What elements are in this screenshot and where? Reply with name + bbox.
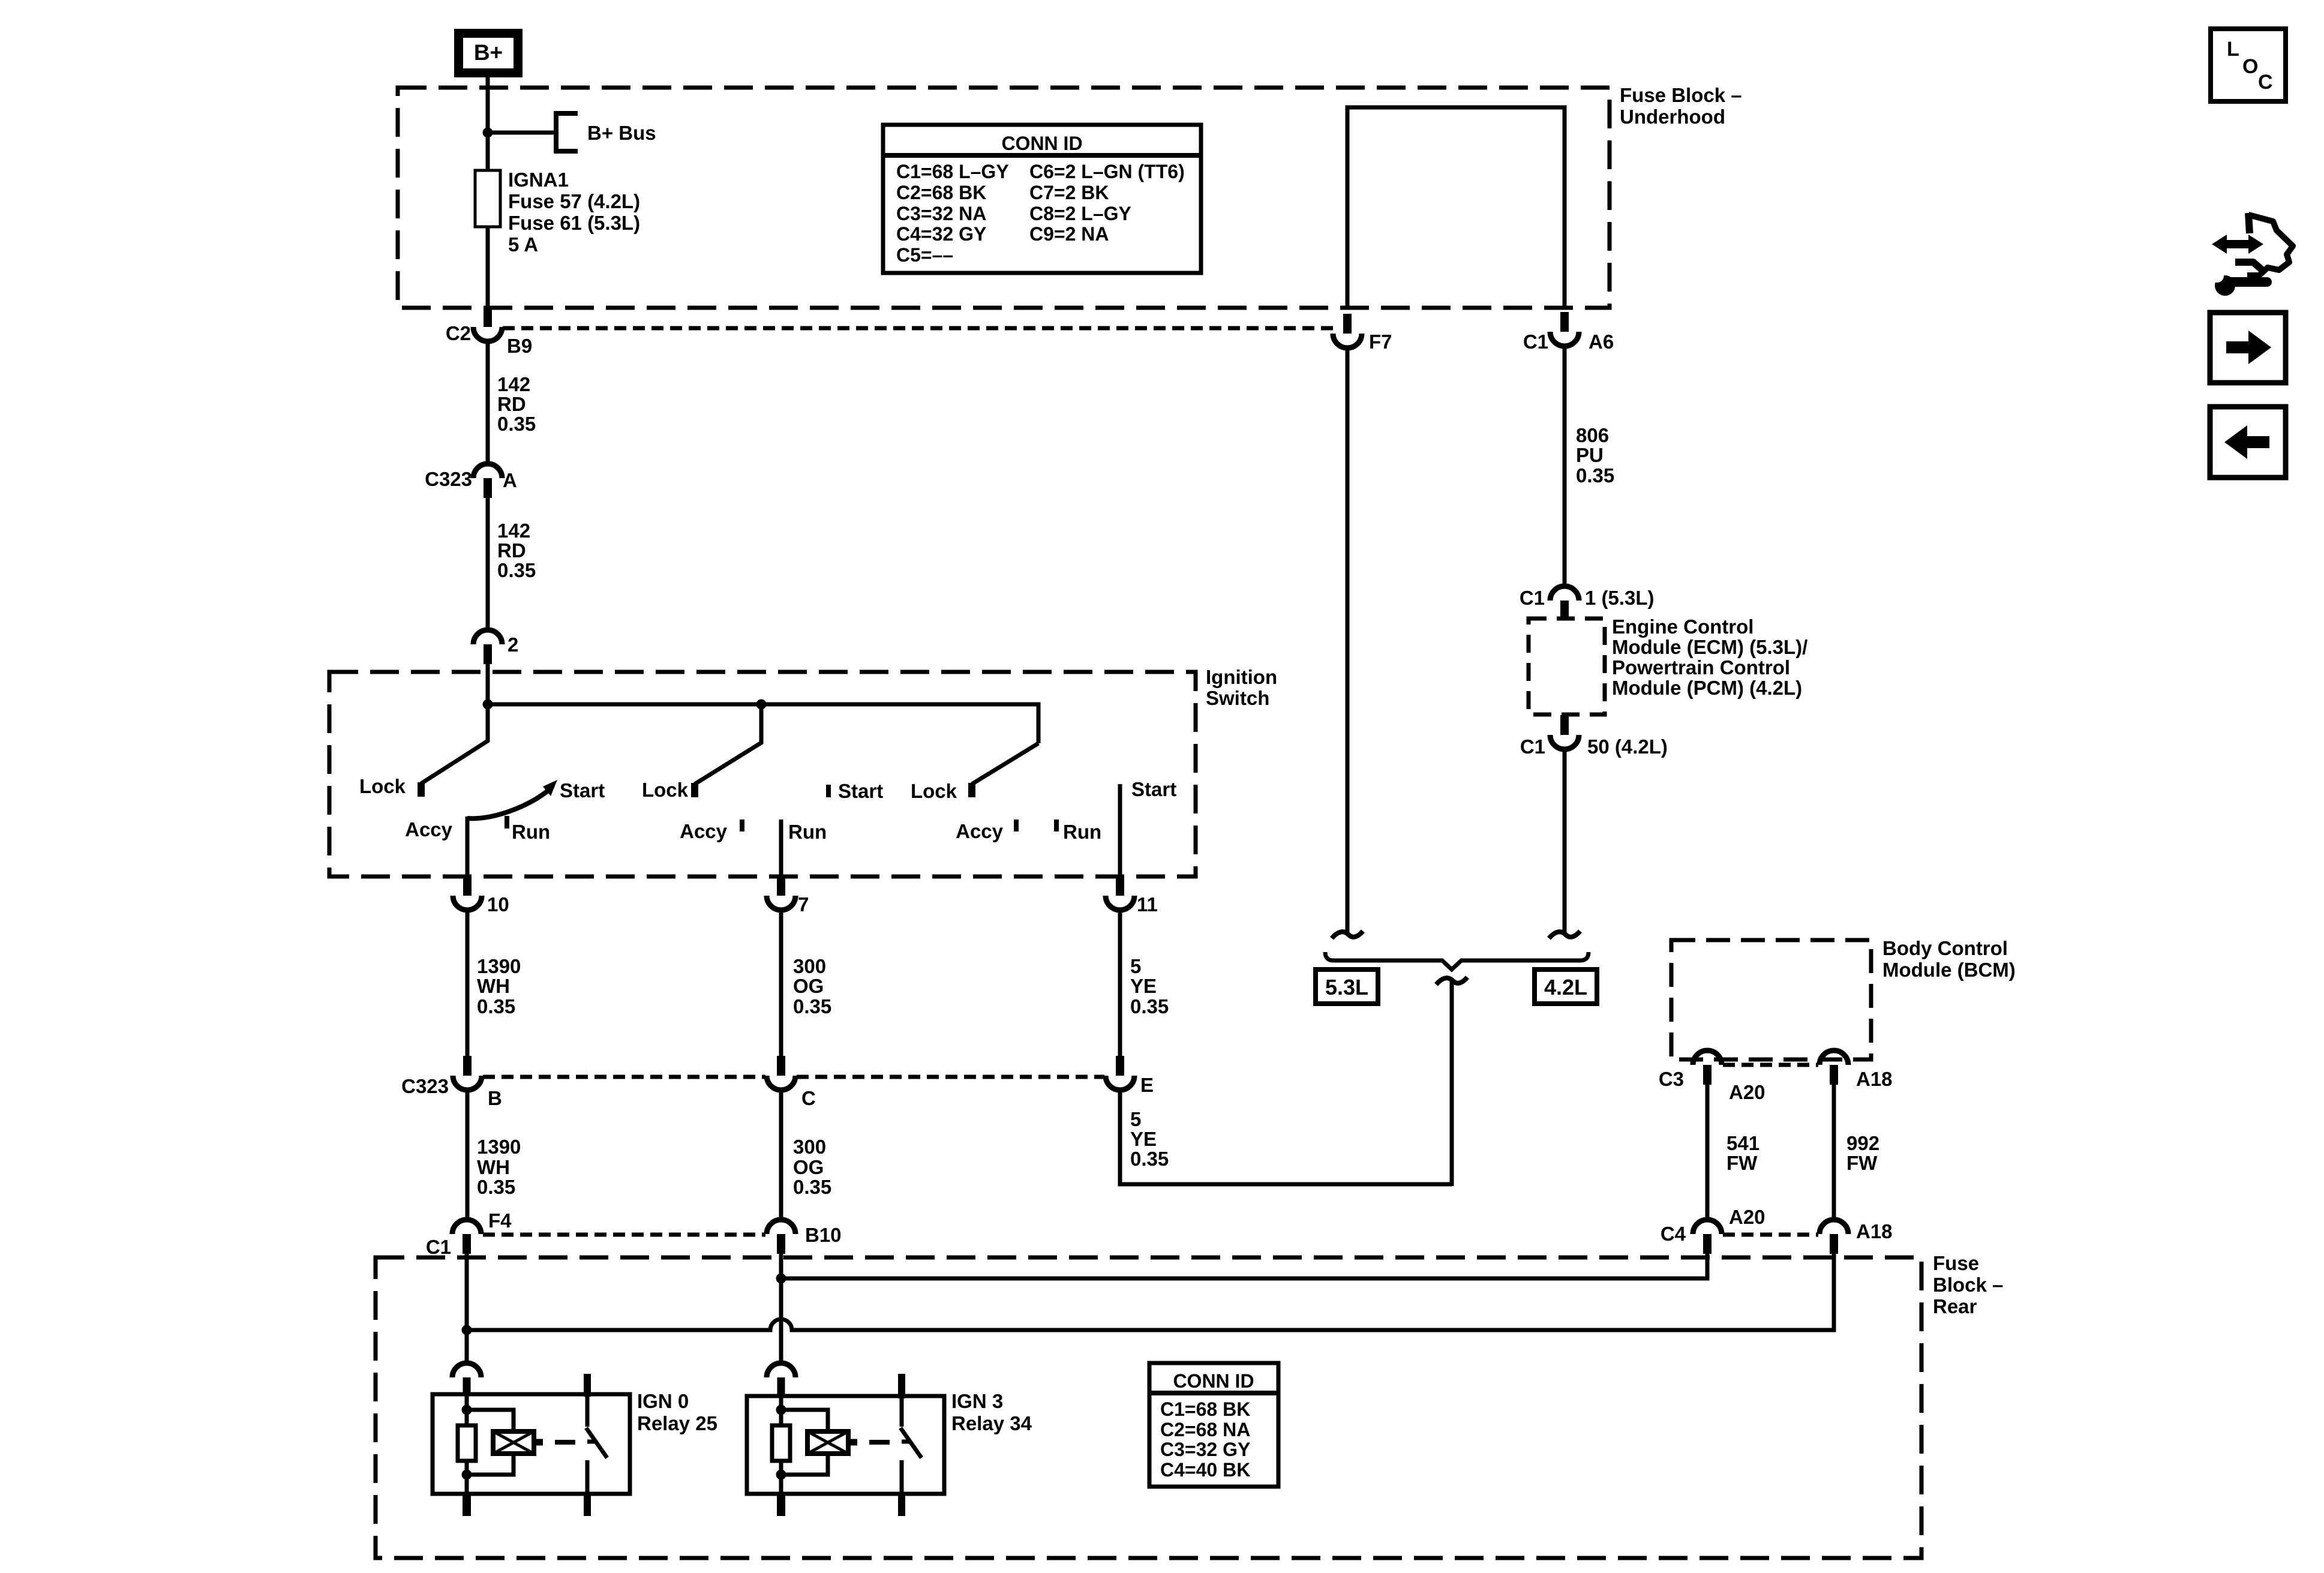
svg-text:C: C [2258, 71, 2273, 94]
svg-text:OG: OG [793, 1156, 824, 1178]
svg-text:Ignition: Ignition [1206, 666, 1277, 688]
connector C1 F4 [463, 1234, 471, 1254]
wire connector 2 to ignition bus [486, 664, 490, 707]
svg-text:Relay 25: Relay 25 [637, 1412, 717, 1434]
svg-text:C2: C2 [446, 322, 471, 344]
tick Start section 2 [826, 785, 831, 797]
Fuse Block - Rear dashed box [376, 1257, 1921, 1558]
tick Run section 3 [1054, 819, 1059, 831]
svg-text:300: 300 [793, 1136, 826, 1158]
svg-text:Engine Control: Engine Control [1612, 616, 1753, 638]
relay connector (IGN 3) [767, 1363, 795, 1377]
tick Accy section 2 [740, 819, 744, 831]
node junction B+ bus tap [483, 128, 493, 138]
power symbol B+ box [454, 29, 523, 77]
relay coil linkage dash (IGN 0) [534, 1439, 543, 1446]
svg-text:Module (PCM) (4.2L): Module (PCM) (4.2L) [1612, 677, 1802, 699]
svg-text:5.3L: 5.3L [1325, 975, 1368, 999]
Engine/Powertrain Control Module dashed box [1529, 619, 1605, 715]
svg-text:A: A [503, 469, 517, 491]
svg-text:A20: A20 [1729, 1081, 1765, 1103]
connector row dotted line C2/B9 to F7 [503, 326, 1333, 331]
LOC icon box [2211, 29, 2286, 101]
svg-text:C9=2 NA: C9=2 NA [1029, 223, 1109, 245]
svg-text:C3: C3 [1659, 1068, 1684, 1090]
svg-text:Rear: Rear [1933, 1295, 1977, 1317]
svg-text:IGNA1: IGNA1 [508, 169, 569, 191]
svg-text:C1: C1 [426, 1236, 451, 1258]
relay coil symbol (IGN 0) [493, 1431, 534, 1454]
relay coil branch (IGN 3) [781, 1410, 828, 1431]
svg-text:C8=2 L–GY: C8=2 L–GY [1029, 203, 1131, 224]
svg-text:FW: FW [1846, 1152, 1878, 1174]
box 5.3L [1316, 969, 1378, 1004]
switch wiper section 2 [695, 704, 761, 784]
wire C4 drop [1706, 1251, 1710, 1281]
svg-text:Start: Start [560, 779, 605, 801]
wire 142 RD segment 2 [486, 498, 490, 631]
node ignition bus junction 2 [756, 700, 767, 710]
svg-text:C6=2 L–GN (TT6): C6=2 L–GN (TT6) [1029, 161, 1185, 182]
connector C3 (BCM) [1703, 1065, 1712, 1085]
svg-text:Fuse: Fuse [1933, 1252, 1979, 1274]
wire fuse block bus F7 to A6 [1347, 107, 1565, 308]
svg-text:B10: B10 [805, 1224, 842, 1246]
connector row dotted line C3-A18 (BCM) [1723, 1063, 1818, 1067]
squiggle F7 wire end [1332, 931, 1363, 938]
svg-text:0.35: 0.35 [477, 1176, 515, 1198]
wire brace to 5 YE junction [1450, 978, 1454, 1186]
svg-text:C323: C323 [425, 468, 472, 490]
svg-text:RD: RD [497, 393, 526, 415]
svg-text:B+ Bus: B+ Bus [587, 122, 656, 144]
svg-text:C1: C1 [1520, 587, 1545, 609]
svg-text:B9: B9 [507, 335, 532, 357]
svg-text:C3=32 GY: C3=32 GY [1160, 1439, 1250, 1460]
wire 992 FW [1832, 1085, 1836, 1220]
connector C1 1 (5.3L) [1560, 601, 1569, 620]
svg-text:OG: OG [793, 975, 824, 997]
svg-text:0.35: 0.35 [793, 1176, 831, 1198]
wire ECM output down [1563, 749, 1567, 932]
svg-text:Accy: Accy [680, 820, 728, 842]
svg-text:992: 992 [1846, 1132, 1879, 1154]
svg-text:A6: A6 [1589, 331, 1614, 353]
wire F7 down to engine harness [1346, 347, 1350, 932]
rotation arc with arrow section 1 [467, 789, 550, 818]
brace joining 5.3L and 4.2L feeds [1325, 952, 1589, 969]
svg-text:IGN 0: IGN 0 [637, 1390, 689, 1412]
svg-text:Relay 34: Relay 34 [951, 1412, 1032, 1434]
component locator icon (part outline with arrow and wrench) [2235, 213, 2293, 275]
svg-text:C4=40 BK: C4=40 BK [1160, 1459, 1250, 1481]
Body Control Module (BCM) dashed box [1671, 940, 1871, 1059]
svg-text:1390: 1390 [477, 1136, 521, 1158]
relay coil resistor (IGN 0) [458, 1425, 476, 1461]
svg-text:C3=32 NA: C3=32 NA [896, 203, 986, 224]
svg-text:C1: C1 [1520, 736, 1545, 758]
svg-text:Lock: Lock [359, 775, 406, 797]
svg-text:CONN ID: CONN ID [1001, 133, 1082, 154]
svg-text:Switch: Switch [1206, 687, 1269, 709]
wire 541 FW [1706, 1085, 1710, 1220]
wire F4 drop to relay 25 [465, 1251, 469, 1364]
svg-text:7: 7 [798, 893, 809, 915]
relay switch (IGN 3) [898, 1374, 905, 1398]
box 4.2L [1535, 969, 1597, 1004]
svg-text:A18: A18 [1856, 1068, 1893, 1090]
svg-text:Accy: Accy [405, 818, 453, 840]
wire 5 YE upper [1118, 909, 1122, 1058]
svg-text:C: C [801, 1087, 816, 1109]
svg-text:C2=68 BK: C2=68 BK [896, 182, 986, 203]
svg-text:YE: YE [1130, 975, 1157, 997]
connector row dotted line C4-A18 (Fuse Block Rear) [1723, 1233, 1818, 1237]
svg-text:A18: A18 [1856, 1220, 1893, 1242]
wire B+ down to fuse IGNA1 and connector C2 [486, 76, 490, 308]
svg-text:0.35: 0.35 [1130, 995, 1169, 1017]
svg-text:0.35: 0.35 [477, 995, 515, 1017]
connector C4 A20 [1703, 1234, 1712, 1254]
svg-text:Powertrain Control: Powertrain Control [1612, 656, 1790, 679]
svg-text:IGN 3: IGN 3 [951, 1390, 1003, 1412]
svg-text:WH: WH [477, 975, 510, 997]
svg-text:B: B [488, 1087, 502, 1109]
wire ignition switch feed bus [488, 704, 1038, 743]
connector C323 C [777, 1056, 785, 1076]
connector C2 B9 [484, 307, 492, 327]
svg-text:0.35: 0.35 [1130, 1148, 1169, 1170]
svg-text:5: 5 [1130, 1108, 1141, 1130]
connector 10 [463, 876, 472, 896]
wire B10 drop to relay 34 [779, 1251, 783, 1364]
relay coil symbol (IGN 3) [807, 1431, 848, 1454]
next page arrow icon [2210, 313, 2286, 383]
wire feed line to A18 with hop [467, 1319, 1836, 1330]
svg-text:C7=2 BK: C7=2 BK [1029, 182, 1109, 203]
svg-text:10: 10 [487, 893, 509, 915]
tick Run section 1 [505, 816, 509, 828]
svg-text:WH: WH [477, 1156, 510, 1178]
svg-text:Block –: Block – [1933, 1274, 2003, 1296]
svg-text:RD: RD [497, 539, 526, 562]
svg-text:Module (BCM): Module (BCM) [1882, 959, 2016, 981]
svg-text:11: 11 [1137, 893, 1158, 915]
switch wiper section 1 [421, 704, 488, 784]
relay coil resistor (IGN 3) [772, 1425, 790, 1461]
relay box IGN 3 Relay 34 [747, 1396, 944, 1494]
svg-text:0.35: 0.35 [497, 559, 536, 581]
svg-text:Start: Start [1131, 778, 1176, 800]
svg-text:5: 5 [1130, 955, 1141, 977]
connector F7 [1343, 314, 1352, 334]
svg-text:541: 541 [1727, 1132, 1759, 1154]
relay switch (IGN 0) [584, 1374, 591, 1397]
switch wiper section 3 [972, 743, 1038, 784]
wire section 3 output to connector 11 [1118, 784, 1122, 878]
connector row dotted line C1 F4-B10 [483, 1233, 765, 1237]
svg-text:C1: C1 [1523, 331, 1548, 353]
svg-text:C323: C323 [401, 1075, 449, 1097]
wire 300 OG upper [779, 909, 783, 1058]
connector row dotted line C323 C-E [797, 1075, 1104, 1079]
node ignition bus junction 1 [483, 700, 493, 710]
svg-text:C1=68 L–GY: C1=68 L–GY [896, 161, 1009, 182]
relay coil input wire (IGN 3) [779, 1396, 783, 1425]
svg-text:O: O [2242, 55, 2258, 78]
connector 2 ignition switch [484, 644, 492, 664]
svg-text:Fuse 61 (5.3L): Fuse 61 (5.3L) [508, 212, 640, 234]
svg-text:142: 142 [497, 373, 530, 395]
svg-text:4.2L: 4.2L [1544, 975, 1587, 999]
svg-text:B+: B+ [474, 40, 503, 65]
svg-text:C1=68 BK: C1=68 BK [1160, 1398, 1250, 1420]
relay connector (IGN 0) [452, 1363, 481, 1377]
connector C323 A [484, 478, 492, 498]
svg-text:300: 300 [793, 955, 826, 977]
wire 1390 WH upper [466, 909, 470, 1058]
connector C1 A6 [1560, 312, 1569, 332]
svg-text:1 (5.3L): 1 (5.3L) [1585, 587, 1655, 609]
wire 1390 WH lower [466, 1089, 470, 1220]
Fuse Block - Underhood dashed box [398, 88, 1610, 308]
relay coil input wire (IGN 0) [465, 1394, 469, 1425]
svg-text:Body Control: Body Control [1882, 937, 2008, 959]
svg-text:PU: PU [1576, 444, 1604, 466]
svg-text:YE: YE [1130, 1128, 1157, 1150]
wire 300 OG lower [779, 1089, 783, 1220]
svg-text:Run: Run [1063, 821, 1101, 843]
wire 806 PU [1563, 346, 1567, 587]
wire 5 YE lower to junction with 4.2L/5.3L feed [1120, 1089, 1452, 1184]
node junction F4 / feed line [462, 1325, 472, 1335]
svg-text:C2=68 NA: C2=68 NA [1160, 1419, 1250, 1440]
svg-text:A20: A20 [1729, 1206, 1765, 1228]
svg-text:C5=––: C5=–– [896, 244, 953, 266]
svg-text:Module (ECM) (5.3L)/: Module (ECM) (5.3L)/ [1612, 636, 1807, 658]
CONN ID table (underhood) [883, 125, 1201, 273]
svg-text:Fuse Block –: Fuse Block – [1620, 84, 1742, 106]
relay box IGN 0 Relay 25 [433, 1394, 630, 1494]
connector A18 (BCM) [1830, 1065, 1838, 1085]
svg-text:Lock: Lock [642, 779, 689, 801]
svg-text:5 A: 5 A [508, 233, 538, 256]
svg-text:0.35: 0.35 [497, 413, 536, 435]
svg-text:Accy: Accy [956, 820, 1004, 842]
squiggle below brace [1436, 977, 1467, 984]
wire section 1 output to connector 10 [466, 816, 470, 878]
connector C323 B [463, 1056, 472, 1076]
squiggle ECM wire end [1549, 931, 1580, 938]
svg-text:Run: Run [512, 821, 550, 843]
svg-text:FW: FW [1727, 1152, 1758, 1174]
wire B+ bus tap [488, 131, 556, 135]
svg-text:1390: 1390 [477, 955, 521, 977]
svg-text:C4: C4 [1661, 1223, 1686, 1245]
connector row dotted line C323 B-C [483, 1075, 765, 1079]
connector B10 [777, 1234, 785, 1254]
svg-text:CONN ID: CONN ID [1173, 1370, 1254, 1392]
wire A18 drop [1832, 1251, 1836, 1332]
svg-text:0.35: 0.35 [793, 995, 831, 1017]
wire feed line B10 to C4 [781, 1277, 1710, 1281]
connector A18 (fuse block rear) [1830, 1234, 1838, 1254]
svg-text:Start: Start [838, 780, 883, 802]
svg-text:Fuse 57 (4.2L): Fuse 57 (4.2L) [508, 190, 640, 212]
relay coil branch (IGN 0) [467, 1410, 514, 1431]
fuse IGNA1 [475, 170, 500, 227]
previous page arrow icon [2210, 407, 2286, 478]
svg-text:50 (4.2L): 50 (4.2L) [1587, 736, 1668, 758]
wire section 2 output to connector 7 [779, 819, 783, 878]
tick Accy section 3 [1014, 819, 1019, 831]
Ignition Switch dashed box [329, 672, 1196, 876]
wire 142 RD segment 1 [486, 340, 490, 466]
svg-text:Underhood: Underhood [1620, 106, 1725, 128]
CONN ID table (rear) [1149, 1363, 1278, 1487]
svg-text:806: 806 [1576, 424, 1609, 446]
svg-text:E: E [1140, 1074, 1154, 1096]
relay coil linkage dash (IGN 3) [848, 1439, 857, 1446]
svg-text:0.35: 0.35 [1576, 464, 1614, 487]
svg-text:Run: Run [788, 821, 827, 843]
svg-text:L: L [2227, 38, 2239, 61]
connector 11 [1116, 876, 1124, 896]
svg-text:142: 142 [497, 520, 530, 542]
svg-text:F4: F4 [488, 1209, 512, 1232]
connector 7 [777, 876, 785, 896]
svg-text:C4=32 GY: C4=32 GY [896, 223, 986, 245]
svg-text:2: 2 [508, 634, 518, 656]
node junction B10 / feed line [776, 1274, 786, 1284]
connector C323 E [1116, 1056, 1124, 1076]
connector C1 50 (4.2L) [1560, 715, 1569, 735]
svg-text:F7: F7 [1369, 331, 1392, 353]
svg-text:Lock: Lock [911, 780, 957, 802]
B+ Bus bracket symbol [556, 113, 578, 151]
